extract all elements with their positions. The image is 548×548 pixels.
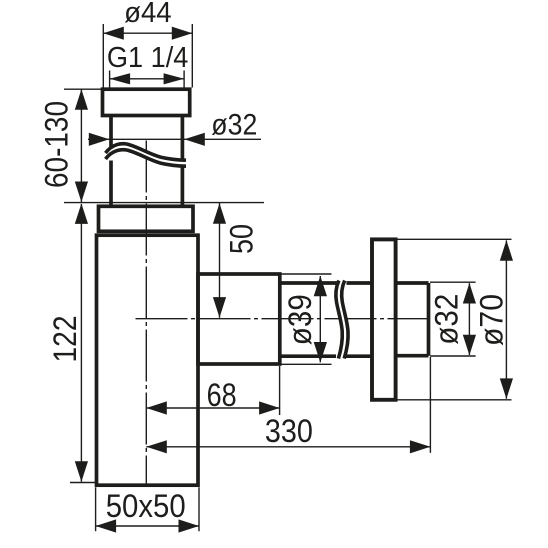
second flange (body nut) <box>99 206 194 231</box>
dim o44 dimension line <box>103 32 192 34</box>
inlet pipe left edge lower segment <box>109 161 113 207</box>
outlet pipe bottom edge (left of break) <box>280 354 336 358</box>
dim o39 dimension line <box>319 276 321 362</box>
svg-text:68: 68 <box>207 377 237 413</box>
dim o32 top left arrowhead <box>89 133 110 146</box>
break wave left curve <box>336 281 343 359</box>
dim 50 down arrowhead <box>213 297 226 318</box>
dim 122 dimension line <box>80 204 82 482</box>
dim 330 left arrowhead <box>146 440 167 453</box>
horizontal centerline <box>136 318 430 320</box>
dim G1 1/4 right arrowhead <box>164 73 185 84</box>
dim o70 extension line top <box>398 238 512 240</box>
dim 60-130 dimension line <box>80 89 82 202</box>
dim 68 left arrowhead <box>146 401 167 414</box>
dim G1 1/4 dimension line <box>110 78 185 80</box>
dim o44 extension line left <box>102 24 104 88</box>
outlet compression nut <box>198 274 280 364</box>
dim G1 1/4 extension line right <box>183 71 185 88</box>
dim o32 top right arrowhead <box>184 133 205 146</box>
dim o70 extension line bottom <box>398 399 512 401</box>
dim o44 right arrowhead <box>172 27 193 40</box>
outlet pipe end cap <box>427 283 431 356</box>
extension line body bottom left <box>70 482 96 484</box>
dim 60-130 down arrowhead <box>75 182 88 203</box>
svg-text:60-130: 60-130 <box>38 101 74 188</box>
break wave upper curve <box>106 144 187 160</box>
dim o39 extension line top <box>281 273 332 275</box>
dim o39 up arrowhead <box>314 276 327 297</box>
break wave right curve <box>342 281 349 359</box>
dim G1 1/4 extension line left <box>109 71 111 88</box>
svg-text:G1 1/4: G1 1/4 <box>107 42 189 74</box>
outlet pipe top edge (break to rosette) <box>347 281 373 285</box>
outlet pipe top edge (left of break) <box>280 281 338 285</box>
dim o70 dimension line <box>505 240 507 398</box>
dim o39 down arrowhead <box>314 342 327 363</box>
break wave on inlet pipe (white gap band) <box>106 147 187 163</box>
dim 50 up arrowhead <box>213 203 226 224</box>
body (50x50 cup) <box>97 235 199 485</box>
wall rosette flange <box>372 239 396 399</box>
dim o44 extension line right <box>191 24 193 88</box>
dim o32 right down arrowhead <box>463 335 476 356</box>
inlet pipe right edge lower segment <box>181 168 185 207</box>
dim 50x50 extension line left <box>95 487 97 531</box>
dim 330 dimension line <box>146 446 430 448</box>
dim o32 right extension line top <box>430 281 476 283</box>
svg-text:50: 50 <box>223 224 259 254</box>
dim 50 dimension line <box>219 203 221 318</box>
dim 50x50 right arrowhead <box>179 519 200 532</box>
extension line at y203 (shared by 60-130, 122, 50) <box>64 202 264 204</box>
outlet pipe top edge (right of rosette) <box>396 281 429 285</box>
dim 330 extension line right <box>429 357 431 453</box>
svg-text:330: 330 <box>265 413 313 449</box>
dim 50x50 extension line right <box>198 487 200 531</box>
svg-text:ø32: ø32 <box>429 294 465 345</box>
dim o70 down arrowhead <box>500 378 513 399</box>
dim o70 up arrowhead <box>500 240 513 261</box>
svg-text:ø32: ø32 <box>211 109 257 142</box>
dim o32 top dimension line <box>88 138 261 140</box>
dim 330 right arrowhead <box>410 440 431 453</box>
dim 68 dimension line <box>146 407 279 409</box>
vertical centerline <box>145 141 147 486</box>
dim o32 right dimension line <box>468 283 470 355</box>
top flange (inlet nut) <box>103 89 190 115</box>
dim 50x50 left arrowhead <box>96 519 117 532</box>
svg-text:122: 122 <box>47 316 83 363</box>
svg-text:ø70: ø70 <box>474 294 510 346</box>
svg-text:ø44: ø44 <box>124 0 172 29</box>
inlet pipe right edge upper segment <box>181 116 185 159</box>
extension line flange top left (for 60-130) <box>64 88 102 90</box>
dim 60-130 up arrowhead <box>75 89 88 110</box>
dim G1 1/4 left arrowhead <box>110 73 131 84</box>
dim o32 right extension line bottom <box>430 355 476 357</box>
svg-text:50x50: 50x50 <box>106 488 186 524</box>
dim 68 extension line right <box>279 366 281 415</box>
dim 122 down arrowhead <box>75 461 88 482</box>
break wave on outlet pipe (white gap band) <box>339 281 346 359</box>
dim 122 up arrowhead <box>75 203 88 224</box>
dim o39 extension line bottom <box>281 363 332 365</box>
dim o32 right up arrowhead <box>463 283 476 304</box>
inlet pipe left edge upper segment <box>109 116 113 152</box>
dim 68 right arrowhead <box>259 401 280 414</box>
break wave lower curve <box>106 150 187 166</box>
svg-text:ø39: ø39 <box>282 294 318 345</box>
dim o44 left arrowhead <box>103 27 124 40</box>
outlet pipe bottom edge (break to rosette) <box>345 354 372 358</box>
dim 50x50 dimension line <box>96 525 199 527</box>
outlet pipe bottom edge (right of rosette) <box>396 354 429 358</box>
